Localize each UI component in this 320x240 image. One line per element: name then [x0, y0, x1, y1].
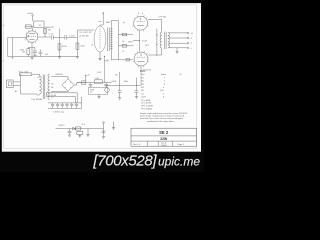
svg-text:Pwr XFMR: Pwr XFMR	[32, 98, 43, 101]
svg-text:+300V: +300V	[27, 13, 34, 15]
wire B+ riser	[104, 56, 106, 83]
wire	[32, 16, 34, 21]
svg-text:alt 10k:10k: alt 10k:10k	[79, 34, 89, 37]
svg-text:6.3VDC reg: 6.3VDC reg	[53, 111, 63, 113]
svg-text:Value: Value	[161, 74, 167, 76]
svg-text:2/2004: 2/2004	[161, 145, 167, 147]
svg-text:180R: 180R	[128, 42, 133, 44]
title cell dividers	[148, 141, 173, 146]
wire	[19, 74, 22, 94]
interstage transformer T2 primary	[94, 26, 106, 52]
fuse F1	[20, 73, 32, 76]
ground rail	[8, 56, 78, 58]
T3 secondary	[168, 33, 170, 48]
plate resistor R4	[44, 27, 46, 37]
ground	[176, 51, 179, 53]
ground	[135, 97, 138, 99]
svg-text:[700x528]upic.me: [700x528]upic.me	[92, 153, 200, 170]
svg-text:KBU810: KBU810	[55, 74, 63, 76]
wire	[111, 20, 132, 59]
ground chassis	[112, 122, 115, 130]
node B+ interstage terminal	[100, 13, 103, 26]
tube V2	[134, 16, 148, 30]
ground	[58, 57, 61, 59]
capacitor bank C12	[51, 103, 54, 108]
svg-text:IT: LL1671 PP: IT: LL1671 PP	[79, 32, 92, 34]
wire tap 4 ohm	[169, 42, 188, 44]
svg-text:1k: 1k	[122, 41, 124, 43]
ground	[31, 58, 34, 60]
svg-text:1k: 1k	[122, 51, 124, 53]
svg-text:100u: 100u	[33, 55, 37, 57]
svg-text:Ref: Ref	[141, 74, 145, 76]
resistor R1	[25, 25, 31, 28]
svg-text:200R: 200R	[111, 81, 116, 83]
svg-text:330u: 330u	[124, 81, 128, 83]
svg-text:33k: 33k	[48, 30, 51, 32]
wire prongs	[13, 82, 20, 86]
resistor R5	[58, 29, 60, 57]
wire cap-bank bottom rail	[48, 97, 82, 108]
AC plug P1	[7, 80, 14, 88]
svg-text:15k: 15k	[45, 54, 48, 56]
black backdrop	[0, 0, 204, 172]
capacitor C11	[104, 83, 108, 88]
wire	[32, 27, 34, 30]
capacitor C10	[89, 83, 93, 88]
svg-text:100k: 100k	[80, 45, 84, 47]
svg-text:W: W	[180, 74, 182, 76]
ground	[98, 59, 101, 61]
regulator U1	[76, 127, 81, 130]
wire tap 8 ohm	[169, 37, 188, 39]
capacitor C7	[39, 49, 43, 56]
grid stopper R8	[118, 45, 133, 47]
svg-text:+6.3: +6.3	[81, 124, 85, 126]
wire	[21, 93, 38, 95]
wire heater line	[56, 128, 104, 130]
resistor R10	[82, 81, 86, 84]
diode D5	[73, 127, 76, 130]
resistor R12	[77, 131, 83, 134]
node +B1 terminal	[85, 75, 87, 82]
svg-text:Page 1: Page 1	[178, 144, 185, 146]
annotation box	[89, 87, 108, 94]
tube V3	[134, 52, 148, 66]
power transformer T1 primary	[40, 76, 42, 94]
title divider 2	[131, 140, 197, 142]
svg-text:OPT = 600R: OPT = 600R	[141, 105, 153, 107]
wire plate V2	[148, 19, 162, 32]
wire	[77, 29, 94, 31]
wire cap-bank top rail	[48, 102, 82, 104]
wire B+	[74, 83, 85, 85]
notes table	[140, 70, 188, 123]
output transformer T3 primary	[160, 33, 162, 48]
sheet border frame	[4, 5, 197, 149]
ground	[102, 136, 105, 138]
T2 secondary	[110, 28, 112, 52]
capacitor C14	[102, 131, 106, 132]
wire plate V3	[148, 48, 161, 55]
title block	[131, 128, 197, 147]
wire heater feed top	[46, 93, 77, 103]
svg-text:ohm load. Use a stout chassis: ohm load. Use a stout chassis and provid…	[140, 117, 183, 120]
wire cathode bus	[106, 84, 142, 86]
wire cathode link	[138, 31, 140, 52]
white schematic sheet	[2, 3, 201, 152]
ground	[12, 57, 14, 60]
T3 core	[165, 32, 167, 49]
grid resistor R8b	[126, 59, 130, 61]
ground	[87, 129, 90, 137]
node heater terminal	[103, 122, 105, 124]
cathode capacitor C6	[135, 78, 137, 91]
capacitor C2	[32, 47, 37, 56]
tube V1	[26, 31, 38, 43]
T1 secondary	[48, 74, 50, 100]
wire grid V1	[8, 37, 27, 39]
wire tap 16 ohm	[169, 32, 188, 34]
svg-text:380V: 380V	[106, 22, 111, 24]
title divider 1	[131, 135, 197, 137]
grid stopper R7	[118, 34, 133, 36]
svg-text:OPT 600: OPT 600	[159, 16, 167, 18]
svg-text:470k: 470k	[62, 46, 66, 48]
T2 core	[108, 28, 110, 52]
text labels (schematic tiny text)	[15, 13, 194, 127]
wire tap 0 ohm	[169, 47, 188, 49]
svg-text:Rk: Rk	[115, 75, 117, 77]
svg-text:0.22u: 0.22u	[69, 36, 75, 38]
capacitor C13	[68, 129, 72, 137]
svg-text:22W: 22W	[160, 137, 168, 141]
wire	[51, 77, 68, 98]
cathode resistor R9	[119, 85, 121, 90]
svg-text:V2 = 6C33: V2 = 6C33	[141, 102, 152, 104]
svg-text:SE 2: SE 2	[159, 130, 169, 135]
capacitor C4	[59, 35, 77, 39]
bridge rectifier D1	[62, 79, 74, 91]
node B+ driver terminal	[32, 15, 34, 17]
ground	[118, 98, 121, 100]
wire B+	[77, 82, 112, 84]
svg-text:Rev 1.0: Rev 1.0	[133, 144, 141, 146]
svg-text:ventilation for the output tub: ventilation for the output tubes.	[147, 120, 175, 123]
svg-text:PT = 300W: PT = 300W	[141, 108, 153, 110]
lamp DS1	[105, 88, 110, 93]
svg-text:1:1: 1:1	[91, 45, 94, 47]
potentiometer VR1	[7, 38, 9, 57]
wire	[176, 48, 178, 52]
choke L2	[94, 80, 102, 83]
svg-text:Fuse 1.5A: Fuse 1.5A	[19, 70, 29, 73]
node line	[156, 29, 158, 56]
ground	[76, 57, 79, 59]
svg-text:Parts: Parts	[140, 70, 146, 73]
T1 core	[43, 75, 45, 100]
capacitor C3	[52, 35, 60, 39]
resistor R6	[76, 30, 78, 57]
resistor R3	[27, 49, 30, 55]
svg-text:LM317: LM317	[59, 125, 66, 127]
choke L1	[34, 21, 44, 27]
wire cathode V3	[140, 66, 142, 72]
wire	[25, 26, 34, 28]
svg-text:6.3V 4A: 6.3V 4A	[49, 94, 56, 97]
wire	[99, 52, 101, 59]
node terminals	[187, 32, 189, 34]
wire cathode V1	[31, 42, 33, 56]
wire plate V1	[38, 36, 51, 38]
ground	[97, 94, 100, 98]
wire grid bus	[117, 20, 119, 59]
